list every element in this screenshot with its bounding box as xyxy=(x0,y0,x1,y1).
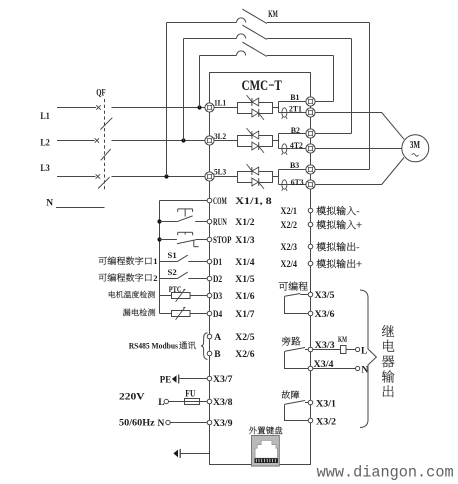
thyristor module V3 (anti-parallel SCR pair) xyxy=(238,164,273,189)
svg-text:220V: 220V xyxy=(119,392,145,402)
terminal X2/1 xyxy=(308,208,313,213)
terminal X2/4 xyxy=(308,261,313,266)
wire output split to B1 and 2T1 xyxy=(278,102,280,113)
svg-text:X1/6: X1/6 xyxy=(235,292,254,302)
thyristor module V2 (anti-parallel SCR pair) xyxy=(238,128,273,153)
svg-text:D4: D4 xyxy=(213,310,222,320)
label 旁路 (bypass relay) xyxy=(282,337,301,346)
svg-text:QF: QF xyxy=(96,88,106,98)
svg-text:RS485 Modbus: RS485 Modbus xyxy=(129,340,179,350)
KM pole2 blade xyxy=(242,25,266,39)
svg-text:X3/6: X3/6 xyxy=(315,310,335,320)
label 可编程 (programmable relay) xyxy=(279,282,308,291)
label 可编程数字口2 xyxy=(99,273,152,281)
terminal B2 xyxy=(306,129,315,138)
wire STOP button to terminal xyxy=(196,239,208,241)
svg-text:2: 2 xyxy=(153,273,157,283)
svg-text:4T2: 4T2 xyxy=(290,140,303,150)
node junction L3/5L3 xyxy=(164,174,168,178)
terminal X3/9 xyxy=(207,420,212,425)
svg-text:6T3: 6T3 xyxy=(291,177,304,187)
svg-text:X3/1: X3/1 xyxy=(316,400,336,410)
wire L1 to breaker xyxy=(57,107,96,109)
node N (mains) xyxy=(356,366,360,370)
terminal B xyxy=(207,351,212,356)
svg-text:3L2: 3L2 xyxy=(214,131,227,141)
svg-text:STOP: STOP xyxy=(213,236,232,246)
wire KM row3 down to B1 xyxy=(333,56,335,102)
svg-text:B1: B1 xyxy=(290,92,299,102)
brace RS485 A/B group xyxy=(201,333,208,360)
push button STOP xyxy=(177,232,199,246)
terminal STOP xyxy=(207,237,212,242)
svg-text:50/60Hz: 50/60Hz xyxy=(119,418,156,428)
leakage detection sensor xyxy=(160,307,208,320)
svg-text:L3: L3 xyxy=(40,164,50,174)
wire 4T2 to motor xyxy=(315,148,402,150)
wire COM to rail xyxy=(160,200,208,202)
wire KM row2 down to B2 xyxy=(351,39,353,134)
terminal 4T2 xyxy=(306,144,315,153)
chassis clamp symbol bottom xyxy=(173,449,180,458)
wire RUN button to terminal xyxy=(195,221,207,223)
svg-text:L2: L2 xyxy=(40,138,50,148)
svg-text:L: L xyxy=(361,346,367,356)
svg-text:X3/7: X3/7 xyxy=(213,375,233,385)
wire KM row1 down to B3 xyxy=(369,23,371,170)
terminal D3 xyxy=(207,293,212,298)
label 漏电检测 xyxy=(123,309,155,317)
label 模拟输出- xyxy=(317,242,360,251)
wire rail to RUN button xyxy=(160,221,177,223)
terminal A xyxy=(207,334,212,339)
node junction L1/1L1 xyxy=(197,105,201,109)
wire KM coil to L xyxy=(346,349,356,351)
svg-text:X1/4: X1/4 xyxy=(235,258,254,268)
wire L to fuse xyxy=(169,401,185,403)
svg-text:X3/2: X3/2 xyxy=(316,418,336,428)
terminal X3/8 xyxy=(207,399,212,404)
wire junction L1 up to KM row3 xyxy=(199,56,201,108)
svg-text:2T1: 2T1 xyxy=(289,104,302,114)
svg-text:B: B xyxy=(214,350,221,360)
node N input xyxy=(166,420,170,424)
svg-text:B3: B3 xyxy=(290,160,300,170)
terminal COM xyxy=(207,198,212,203)
svg-text:D3: D3 xyxy=(213,292,222,302)
breaker QF pole L1 blade xyxy=(100,118,112,130)
svg-text:L: L xyxy=(158,398,164,408)
svg-text:A: A xyxy=(214,333,221,343)
PTC motor temperature sensor xyxy=(160,289,208,302)
terminal B1 xyxy=(306,97,315,106)
wire breaker to terminal L2 xyxy=(112,140,206,142)
label 故障 (fault relay) xyxy=(282,390,300,398)
svg-text:X2/4: X2/4 xyxy=(281,260,298,270)
terminal D2 xyxy=(207,276,212,281)
wire thyristor V3 output xyxy=(273,176,279,178)
wire breaker to terminal L3 xyxy=(112,176,206,178)
brace relay outputs xyxy=(360,290,376,428)
svg-text:X1/7: X1/7 xyxy=(235,310,254,320)
breaker QF pole L1 contact cross xyxy=(96,105,100,109)
wire 6T3 to motor xyxy=(315,158,404,185)
svg-text:PE: PE xyxy=(160,375,171,385)
breaker QF pole L2 contact cross xyxy=(95,138,99,142)
terminal 1L1 xyxy=(205,103,214,112)
svg-text:D2: D2 xyxy=(213,275,222,285)
svg-text:N: N xyxy=(361,365,368,375)
label 外置键盘 (external keypad) xyxy=(249,426,283,434)
terminal 6T3 xyxy=(306,180,315,189)
switch S2 programmable digital input 2 xyxy=(160,272,208,279)
wire X3/4 to N xyxy=(313,368,356,370)
label 电机温度检测 xyxy=(109,291,155,298)
svg-text:X3/5: X3/5 xyxy=(315,291,335,301)
svg-text:X1/2: X1/2 xyxy=(235,218,254,228)
terminal 3L2 xyxy=(205,136,214,145)
svg-text:KM: KM xyxy=(268,9,278,19)
current transformer on 4T2 line xyxy=(282,144,288,155)
wire L2 to breaker xyxy=(57,140,95,142)
KM pole3 blade xyxy=(242,42,266,56)
svg-text:CMC−T: CMC−T xyxy=(242,78,282,94)
breaker QF linkage (dashed) xyxy=(104,99,106,190)
wire input terminal to thyristor V2 xyxy=(214,140,238,142)
svg-text:X2/6: X2/6 xyxy=(235,350,254,360)
push button RUN (start) xyxy=(177,209,193,222)
svg-text:3M: 3M xyxy=(410,140,420,151)
svg-text:N: N xyxy=(158,419,165,429)
node rail/RUN xyxy=(157,219,161,223)
KM pole2 right wire xyxy=(267,38,352,40)
relay contact 可编程 xyxy=(285,294,309,314)
svg-text:KM: KM xyxy=(338,334,347,344)
label 可编程数字口1 xyxy=(99,257,152,265)
svg-text:L1: L1 xyxy=(40,112,50,122)
wire junction L3 up to KM row1 xyxy=(166,23,168,177)
breaker QF pole L3 contact cross xyxy=(96,174,100,178)
wire thyristor V2 output xyxy=(273,140,279,142)
wire clamp to box xyxy=(180,453,209,455)
current transformer on 2T1 line xyxy=(282,108,288,119)
svg-text:X1/5: X1/5 xyxy=(235,275,254,285)
terminal X2/2 xyxy=(308,222,313,227)
KM pole3 right wire xyxy=(267,55,334,57)
svg-text:X2/5: X2/5 xyxy=(235,333,254,343)
breaker QF pole L2 blade xyxy=(101,149,111,160)
KM pole1 blade xyxy=(242,9,266,23)
thyristor module V1 (anti-parallel SCR pair) xyxy=(238,95,273,120)
KM pole2 fixed contact arc xyxy=(237,34,246,39)
current transformer on 6T3 line xyxy=(282,180,288,191)
svg-text:COM: COM xyxy=(213,197,227,207)
terminal X3/1 xyxy=(308,400,313,405)
breaker QF pole L3 blade xyxy=(98,177,110,188)
KM pole2 left wire xyxy=(184,38,237,40)
terminal D1 xyxy=(207,259,212,264)
terminal X2/3 xyxy=(308,244,313,249)
external keypad RJ45 connector xyxy=(252,436,280,467)
wire PE to X3/7 xyxy=(179,378,208,380)
motor 3M xyxy=(402,135,429,162)
KM pole3 left wire xyxy=(200,55,237,57)
svg-text:S2: S2 xyxy=(168,267,177,277)
terminal X3/5 xyxy=(308,292,313,297)
svg-text:X3/9: X3/9 xyxy=(213,419,233,429)
svg-text:N: N xyxy=(46,199,53,209)
PE earth clamp symbol xyxy=(172,375,179,384)
wire 2T1 to motor xyxy=(315,113,404,140)
wire common rail xyxy=(159,201,161,314)
svg-text:S1: S1 xyxy=(168,250,177,260)
svg-text:5L3: 5L3 xyxy=(214,166,227,176)
label 模拟输出+ xyxy=(317,259,362,268)
wire fuse to X3/8 xyxy=(200,401,208,403)
svg-text:X1/3: X1/3 xyxy=(235,236,254,246)
relay contact 旁路 xyxy=(285,348,309,369)
terminal 5L3 xyxy=(205,172,214,181)
terminal D4 xyxy=(207,311,212,316)
wire breaker to terminal L1 xyxy=(112,107,206,109)
KM pole1 right wire xyxy=(267,22,370,24)
wire X3/3 to KM coil xyxy=(313,349,341,351)
KM contactor coil xyxy=(341,346,347,354)
wire N to X3/9 xyxy=(170,422,207,424)
fuse FU xyxy=(185,399,200,405)
terminal B3 xyxy=(306,165,315,174)
svg-text:FU: FU xyxy=(185,389,196,399)
terminal 2T1 xyxy=(306,108,315,117)
node rail/STOP xyxy=(157,237,161,241)
svg-text:D1: D1 xyxy=(213,258,222,268)
svg-text:www.diangon.com: www.diangon.com xyxy=(317,463,454,481)
svg-text:X1/1, 8: X1/1, 8 xyxy=(235,197,272,207)
svg-text:1: 1 xyxy=(153,256,157,266)
wire thyristor V1 output xyxy=(273,107,279,109)
wire rail to STOP button xyxy=(160,239,177,241)
wire input terminal to thyristor V1 xyxy=(214,107,238,109)
svg-text:X2/2: X2/2 xyxy=(281,221,298,231)
svg-text:RUN: RUN xyxy=(213,218,227,228)
wire input terminal to thyristor V3 xyxy=(214,176,238,178)
CMC-T soft starter enclosure box xyxy=(210,73,311,465)
KM pole1 fixed contact arc xyxy=(237,18,246,23)
terminal X3/7 xyxy=(207,376,212,381)
wire junction L2 up to KM row2 xyxy=(183,39,185,141)
KM pole1 left wire xyxy=(167,22,237,24)
relay contact 故障 xyxy=(285,401,309,421)
svg-text:B2: B2 xyxy=(291,125,301,135)
node L (mains) xyxy=(356,347,360,351)
label 模拟输入+ xyxy=(317,220,362,229)
node L input xyxy=(164,399,168,403)
terminal X3/6 xyxy=(308,311,313,316)
wire N stub xyxy=(56,207,105,209)
terminal X3/3 xyxy=(308,347,313,352)
label 模拟输入- xyxy=(317,206,360,215)
switch S1 programmable digital input 1 xyxy=(160,255,208,262)
wire output split to B2 and 4T2 xyxy=(278,134,280,149)
KM pole3 fixed contact arc xyxy=(237,51,246,56)
wire output split to B3 and 6T3 xyxy=(278,170,280,185)
terminal X3/2 xyxy=(308,418,313,423)
svg-text:X3/8: X3/8 xyxy=(213,398,233,408)
label 继电器输出 (relay output) xyxy=(382,325,395,397)
wire L3 to breaker xyxy=(57,176,96,178)
terminal RUN xyxy=(207,219,212,224)
svg-text:1L1: 1L1 xyxy=(214,97,226,107)
svg-text:X2/1: X2/1 xyxy=(281,207,298,217)
svg-text:PTC: PTC xyxy=(169,285,182,294)
svg-text:X2/3: X2/3 xyxy=(281,243,298,253)
node junction L2/3L2 xyxy=(181,138,185,142)
terminal X3/4 xyxy=(308,366,313,371)
